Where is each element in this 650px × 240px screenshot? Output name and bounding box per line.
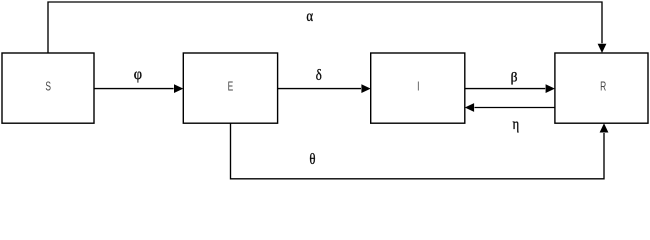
svg-text:R: R	[600, 80, 606, 94]
svg-text:α: α	[306, 8, 313, 26]
svg-text:θ: θ	[309, 151, 315, 169]
svg-text:I: I	[417, 80, 419, 94]
svg-text:φ: φ	[134, 65, 143, 83]
svg-text:E: E	[228, 80, 234, 94]
svg-text:β: β	[511, 70, 518, 85]
svg-text:η: η	[513, 116, 520, 134]
svg-text:δ: δ	[316, 67, 322, 85]
svg-text:S: S	[45, 80, 51, 94]
